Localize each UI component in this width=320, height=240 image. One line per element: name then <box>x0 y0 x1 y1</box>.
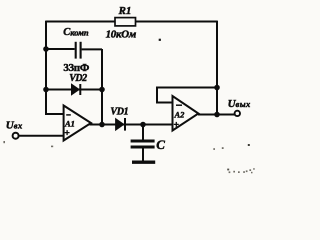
wire compensation capacitor branch left lead <box>46 48 75 50</box>
op-amp A2 <box>173 96 199 131</box>
capacitor Скомп <box>76 42 81 59</box>
svg-text:А1: А1 <box>64 119 75 129</box>
junction right rail / A2 feedback tap <box>214 85 220 91</box>
wire A2 output to Uвых <box>198 114 234 116</box>
svg-text:Uвых: Uвых <box>228 98 251 110</box>
junction on comp right rail at VD2 branch <box>99 87 105 93</box>
svg-text:А2: А2 <box>174 110 186 120</box>
junction on left rail at VD2 branch <box>43 87 49 93</box>
capacitor C <box>131 141 155 147</box>
terminal Uвх input <box>13 133 19 139</box>
diode VD1 <box>116 118 125 131</box>
wire A2 feedback: output node up-left to inverting input <box>157 88 217 103</box>
wire from Uвх to A1 non-inverting input <box>19 135 64 137</box>
svg-text:Скомп: Скомп <box>63 27 89 38</box>
junction A1 output node <box>99 122 105 128</box>
wire right rail (output feedback rail) <box>216 21 218 115</box>
wire capacitor C to ground <box>142 149 144 161</box>
wire top feedback from A1 inverting rail to right rail <box>46 21 217 23</box>
wire compensation capacitor branch right lead <box>82 48 102 50</box>
svg-text:C: C <box>156 137 165 152</box>
wire left rail (A1 inverting input rail) <box>46 21 64 114</box>
junction output node at right rail <box>214 112 220 118</box>
diode VD2 <box>72 84 81 95</box>
wire VD2 branch <box>46 89 102 91</box>
svg-text:Uвх: Uвх <box>6 119 23 131</box>
wire compensation network right rail down to A1 output <box>101 49 103 125</box>
svg-text:10кОм: 10кОм <box>106 28 137 40</box>
svg-text:VD1: VD1 <box>110 106 128 117</box>
ground <box>132 160 155 163</box>
svg-text:R1: R1 <box>118 5 132 17</box>
wire A1 output to A2 non-inverting input <box>90 124 173 126</box>
wire from node down to capacitor C <box>142 125 144 140</box>
terminal Uвых output <box>235 111 240 116</box>
junction on left rail at Скомп branch <box>43 46 49 52</box>
resistor R1 <box>115 18 136 26</box>
junction storage node at C <box>140 122 146 128</box>
op-amp A1 <box>64 106 91 141</box>
svg-text:VD2: VD2 <box>69 73 87 84</box>
